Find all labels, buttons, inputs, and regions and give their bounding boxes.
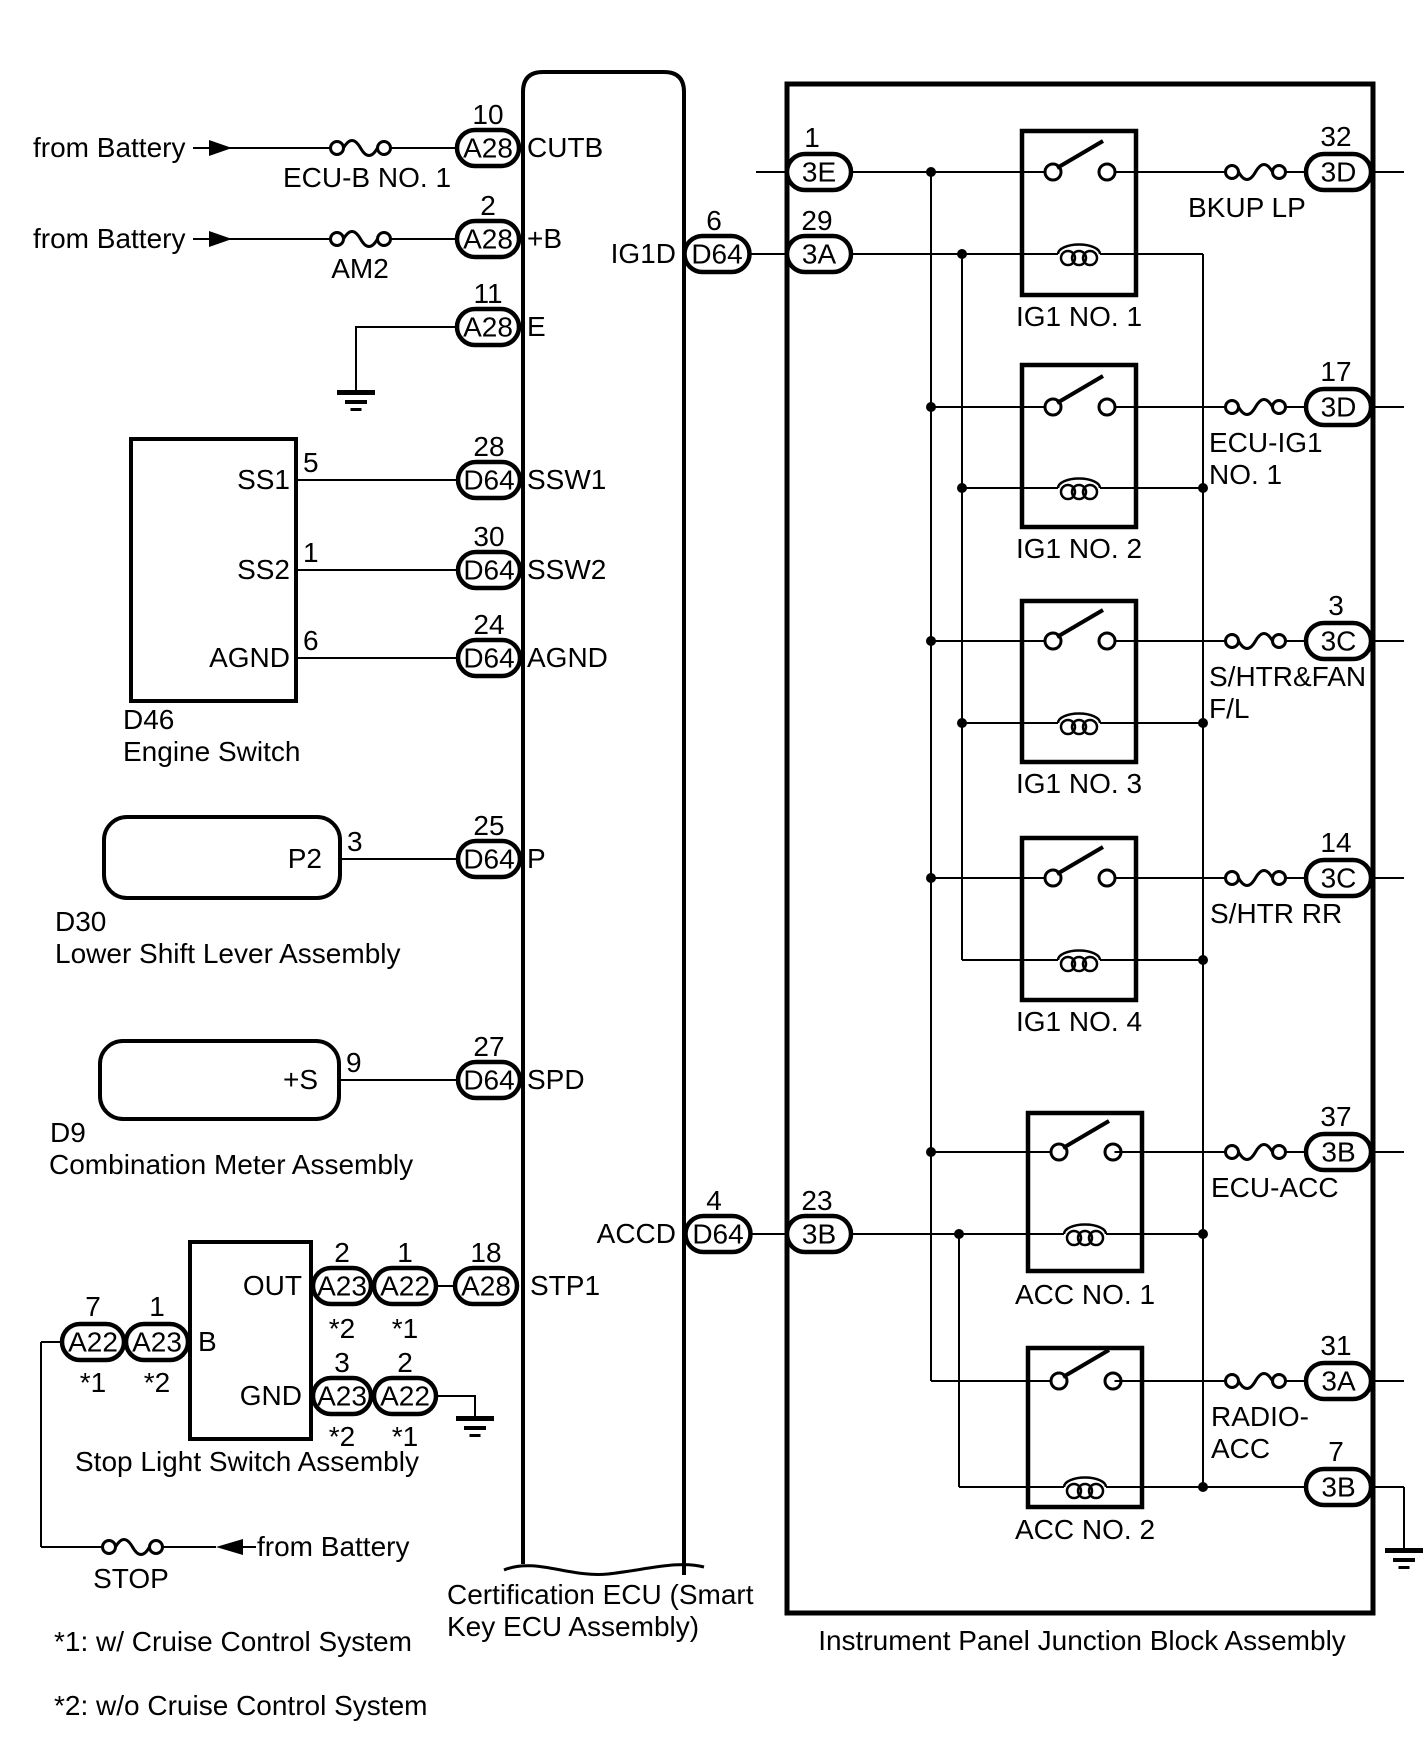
- svg-text:1: 1: [804, 122, 820, 153]
- relay IG1 NO. 2 switch contact: [1020, 406, 1046, 408]
- svg-text:D64: D64: [463, 555, 514, 586]
- wire relay switch to fuse row 32: [1115, 171, 1226, 173]
- wire fuse to connector A28 pin 2: [391, 238, 458, 240]
- wire 3B to ACC NO.1 coil: [851, 1233, 1040, 1235]
- svg-text:D64: D64: [463, 643, 514, 674]
- svg-text:*1: *1: [392, 1313, 418, 1344]
- svg-text:D46: D46: [123, 704, 174, 735]
- wire bus to IG1 NO.2 coil: [962, 487, 1034, 489]
- connector 3B pin 37: [1306, 1134, 1371, 1170]
- wire 3E to IG1 NO.1 switch: [851, 171, 1046, 173]
- engine switch D46 box: [131, 439, 296, 701]
- wire B node down to STOP fuse: [40, 1342, 42, 1547]
- wire fuse to connector A28 pin 10: [391, 147, 458, 149]
- connector 3A pin 29: [787, 236, 851, 272]
- svg-text:ACC NO. 1: ACC NO. 1: [1015, 1279, 1155, 1310]
- svg-text:2: 2: [480, 190, 496, 221]
- svg-text:Stop Light Switch Assembly: Stop Light Switch Assembly: [75, 1446, 419, 1477]
- connector D64 pin 30 (SSW2): [458, 552, 520, 588]
- svg-text:3: 3: [1328, 590, 1344, 621]
- svg-text:7: 7: [85, 1291, 101, 1322]
- svg-text:CUTB: CUTB: [527, 132, 603, 163]
- wire A22 pin 2 to ground: [436, 1395, 475, 1397]
- fuse ECU-ACC: [1226, 1146, 1239, 1159]
- relay IG1 NO. 3: [1022, 601, 1136, 762]
- connector A23 pin 2 (*2) OUT row: [313, 1268, 371, 1304]
- svg-text:3D: 3D: [1321, 157, 1357, 188]
- svg-text:27: 27: [473, 1031, 504, 1062]
- ECU Certification ECU (Smart Key ECU Assembly) body: [523, 72, 684, 1575]
- relay IG1 NO. 1 switch contact: [1020, 171, 1046, 173]
- ground symbol (stop light switch): [456, 1416, 494, 1421]
- connector D64 pin 6 (IG1D): [685, 236, 750, 272]
- connector 3C pin 14: [1306, 860, 1371, 896]
- wire stub right of 3B pin 7: [1371, 1486, 1404, 1488]
- svg-text:A28: A28: [463, 224, 513, 255]
- svg-text:A28: A28: [461, 1271, 511, 1302]
- svg-text:A23: A23: [132, 1327, 182, 1358]
- svg-text:*1: *1: [392, 1421, 418, 1452]
- wire stub right of 3D pin 32: [1371, 171, 1404, 173]
- svg-text:SSW1: SSW1: [527, 464, 606, 495]
- svg-text:Combination Meter Assembly: Combination Meter Assembly: [49, 1149, 413, 1180]
- ground symbol (junction block): [1385, 1548, 1423, 1553]
- svg-text:3B: 3B: [1321, 1137, 1355, 1168]
- svg-text:31: 31: [1320, 1330, 1351, 1361]
- connector A28 pin 10 (CUTB): [457, 130, 519, 166]
- connector 3B pin 7: [1306, 1469, 1371, 1505]
- relay ACC NO. 1 switch contact: [1026, 1151, 1052, 1153]
- relay ACC NO. 1: [1028, 1113, 1142, 1271]
- wire stub right of 3C pin 3: [1371, 640, 1404, 642]
- relay IG1 NO. 2 coil: [1020, 487, 1058, 489]
- relay IG1 NO. 3 switch contact: [1020, 640, 1046, 642]
- wire fuse to connector 3D pin 32: [1286, 171, 1307, 173]
- svg-text:3B: 3B: [802, 1219, 836, 1250]
- svg-text:2: 2: [334, 1237, 350, 1268]
- wire relay switch to fuse row 37: [1115, 1151, 1226, 1153]
- svg-text:D64: D64: [692, 1219, 743, 1250]
- svg-text:OUT: OUT: [243, 1270, 302, 1301]
- wire fuse to connector 3A pin 31: [1286, 1380, 1307, 1382]
- wire D64 pin 6 to 3A pin 29: [749, 253, 788, 255]
- connector A23 pin 1 (*2) B row: [126, 1324, 188, 1360]
- relay ACC NO. 1 coil: [1026, 1233, 1064, 1235]
- fuse ECU-B NO. 1: [331, 142, 344, 155]
- svg-text:30: 30: [473, 521, 504, 552]
- svg-text:2: 2: [397, 1347, 413, 1378]
- relay ACC NO. 2 switch contact: [1026, 1380, 1052, 1382]
- wire D64 pin 4 to 3B pin 23: [750, 1233, 788, 1235]
- wire D46 pin 1 to D64 pin 30: [296, 569, 457, 571]
- wire 3B pin 7 to ground: [1403, 1487, 1405, 1549]
- arrow from Battery row 1: [209, 140, 232, 156]
- svg-text:3B: 3B: [1321, 1472, 1355, 1503]
- svg-text:SPD: SPD: [527, 1064, 585, 1095]
- svg-text:3C: 3C: [1321, 863, 1357, 894]
- svg-text:ECU-ACC: ECU-ACC: [1211, 1172, 1339, 1203]
- wire bus to IG1 NO.3 switch: [931, 640, 1046, 642]
- svg-text:6: 6: [706, 205, 722, 236]
- connector A28 pin 2 (+B): [457, 221, 519, 257]
- svg-text:6: 6: [303, 625, 319, 656]
- connector D64 pin 27 (SPD): [458, 1062, 520, 1098]
- combination meter assembly D9 box: [100, 1041, 339, 1119]
- svg-text:D30: D30: [55, 906, 106, 937]
- svg-text:SSW2: SSW2: [527, 554, 606, 585]
- svg-text:ACCD: ACCD: [597, 1218, 676, 1249]
- fuse S/HTR RR: [1226, 872, 1239, 885]
- wire stub right of 3B pin 37: [1371, 1151, 1404, 1153]
- svg-text:32: 32: [1320, 121, 1351, 152]
- junction: [954, 1229, 964, 1239]
- svg-text:1: 1: [303, 537, 319, 568]
- relay IG1 NO. 2: [1022, 365, 1136, 527]
- relay ACC NO. 2 coil: [1026, 1486, 1064, 1488]
- wire bus to ACC NO.1 switch: [931, 1151, 1052, 1153]
- svg-text:Key ECU Assembly): Key ECU Assembly): [447, 1611, 699, 1642]
- ground symbol (E): [337, 390, 375, 395]
- svg-text:18: 18: [470, 1237, 501, 1268]
- wire stub to A22 pin 7: [41, 1341, 62, 1343]
- svg-text:STP1: STP1: [530, 1270, 600, 1301]
- svg-text:P: P: [527, 843, 546, 874]
- connector A22 pin 1 (*1) OUT row: [374, 1268, 436, 1304]
- wire return bus to 3B pin 7: [1203, 1486, 1306, 1488]
- svg-text:S/HTR&FAN: S/HTR&FAN: [1209, 661, 1366, 692]
- svg-text:A28: A28: [463, 133, 513, 164]
- wire bus from 3B to ACC relay coils: [958, 1234, 960, 1487]
- svg-text:AM2: AM2: [331, 253, 389, 284]
- wire fuse to connector 3B pin 37: [1286, 1151, 1307, 1153]
- relay ACC NO. 2: [1028, 1348, 1142, 1507]
- svg-text:A22: A22: [380, 1271, 430, 1302]
- svg-text:*1: *1: [80, 1367, 106, 1398]
- wire bus to IG1 NO.4 coil: [962, 959, 1034, 961]
- svg-text:from Battery: from Battery: [33, 132, 185, 163]
- junction: [926, 636, 936, 646]
- connector 3E pin 1: [787, 154, 851, 190]
- junction: [1198, 1482, 1208, 1492]
- connector D64 pin 24 (AGND): [458, 640, 520, 676]
- svg-text:1: 1: [397, 1237, 413, 1268]
- junction: [926, 402, 936, 412]
- svg-text:STOP: STOP: [93, 1563, 169, 1594]
- wire D30 pin 3 to D64 pin 25: [340, 858, 457, 860]
- wire ACC NO.1 coil to return bus: [1142, 1233, 1203, 1235]
- wire D46 pin 5 to D64 pin 28: [296, 479, 457, 481]
- wire fuse to connector 3C pin 3: [1286, 640, 1307, 642]
- svg-text:4: 4: [706, 1185, 722, 1216]
- svg-text:NO. 1: NO. 1: [1209, 459, 1282, 490]
- stop light switch assembly box: [190, 1242, 311, 1439]
- wire bus from 3E to relay switches: [930, 172, 932, 1381]
- svg-text:25: 25: [473, 810, 504, 841]
- wire bus to ACC NO.2 coil: [959, 1486, 1040, 1488]
- wire relay switch to fuse row 14: [1115, 877, 1226, 879]
- svg-text:11: 11: [473, 278, 502, 309]
- svg-text:D64: D64: [463, 1065, 514, 1096]
- svg-text:3D: 3D: [1321, 392, 1357, 423]
- svg-text:F/L: F/L: [1209, 693, 1249, 724]
- svg-text:BKUP LP: BKUP LP: [1188, 192, 1306, 223]
- wire bus to IG1 NO.4 switch: [931, 877, 1046, 879]
- svg-text:Instrument Panel Junction Bloc: Instrument Panel Junction Block Assembly: [818, 1625, 1346, 1656]
- svg-text:RADIO-: RADIO-: [1211, 1401, 1309, 1432]
- junction: [926, 167, 936, 177]
- wire bus to ACC NO.2 switch: [931, 1380, 1052, 1382]
- svg-text:3A: 3A: [802, 239, 837, 270]
- svg-text:*2: *2: [329, 1313, 355, 1344]
- ECU torn-bottom wavy line: [504, 1565, 704, 1575]
- wire D9 pin 9 to D64 pin 27: [339, 1079, 457, 1081]
- junction: [957, 718, 967, 728]
- junction block Instrument Panel Junction Block Assembly: [787, 84, 1373, 1613]
- wire stub right of 3C pin 14: [1371, 877, 1404, 879]
- connector 3D pin 17: [1306, 389, 1371, 425]
- fuse AM2: [331, 233, 344, 246]
- relay IG1 NO. 1 coil: [1020, 253, 1058, 255]
- wire relay switch to fuse row 31: [1115, 1380, 1226, 1382]
- svg-text:29: 29: [801, 205, 832, 236]
- svg-text:Lower Shift Lever Assembly: Lower Shift Lever Assembly: [55, 938, 401, 969]
- junction: [957, 483, 967, 493]
- svg-text:A22: A22: [68, 1327, 118, 1358]
- fuse S/HTR&amp;FAN: [1226, 635, 1239, 648]
- junction: [1198, 483, 1208, 493]
- svg-text:1: 1: [149, 1291, 165, 1322]
- wire ground to connector A28 pin 11: [356, 326, 457, 328]
- wire stub right of 3D pin 17: [1371, 406, 1404, 408]
- junction: [926, 873, 936, 883]
- svg-text:7: 7: [1328, 1436, 1344, 1467]
- connector 3D pin 32: [1306, 154, 1371, 190]
- svg-text:Certification ECU (Smart: Certification ECU (Smart: [447, 1579, 754, 1610]
- svg-text:24: 24: [473, 609, 504, 640]
- svg-text:+S: +S: [283, 1064, 318, 1095]
- svg-text:28: 28: [473, 431, 504, 462]
- connector A22 pin 2 (*1) GND row: [374, 1378, 436, 1414]
- svg-text:3: 3: [347, 826, 363, 857]
- fuse BKUP LP: [1226, 166, 1239, 179]
- svg-text:SS2: SS2: [237, 554, 290, 585]
- wire bus to IG1 NO.2 switch: [931, 406, 1046, 408]
- svg-text:ACC: ACC: [1211, 1433, 1270, 1464]
- wire bus from 3A to IG1 relay coils: [961, 254, 963, 960]
- svg-text:D64: D64: [463, 465, 514, 496]
- connector A28 pin 18 (STP1): [455, 1268, 517, 1304]
- wire relay switch to fuse row 3: [1115, 640, 1226, 642]
- svg-text:ECU-IG1: ECU-IG1: [1209, 427, 1323, 458]
- fuse ECU-IG1: [1226, 401, 1239, 414]
- connector A23 pin 3 (*2) GND row: [313, 1378, 371, 1414]
- svg-text:A23: A23: [317, 1271, 367, 1302]
- svg-text:IG1 NO. 4: IG1 NO. 4: [1016, 1006, 1142, 1037]
- lower shift lever assembly D30 box: [104, 817, 340, 898]
- fuse RADIO-: [1226, 1375, 1239, 1388]
- svg-text:GND: GND: [240, 1380, 302, 1411]
- wire D46 pin 6 to D64 pin 24: [296, 657, 457, 659]
- relay IG1 NO. 1: [1022, 131, 1136, 295]
- junction: [1198, 1229, 1208, 1239]
- wire stub into 3E pin 1: [756, 171, 788, 173]
- connector 3B pin 23: [787, 1216, 851, 1252]
- junction: [957, 249, 967, 259]
- svg-text:D64: D64: [691, 239, 742, 270]
- arrow from Battery (STOP): [216, 1539, 243, 1555]
- svg-text:+B: +B: [527, 223, 562, 254]
- relay IG1 NO. 4 coil: [1020, 959, 1058, 961]
- svg-text:AGND: AGND: [209, 642, 290, 673]
- svg-text:IG1 NO. 3: IG1 NO. 3: [1016, 768, 1142, 799]
- svg-text:3E: 3E: [802, 157, 836, 188]
- junction: [1198, 955, 1208, 965]
- svg-text:14: 14: [1320, 827, 1351, 858]
- wire fuse to connector 3D pin 17: [1286, 406, 1307, 408]
- svg-text:3: 3: [334, 1347, 350, 1378]
- svg-text:23: 23: [801, 1185, 832, 1216]
- svg-text:17: 17: [1320, 356, 1351, 387]
- svg-text:D9: D9: [50, 1117, 86, 1148]
- svg-text:IG1 NO. 1: IG1 NO. 1: [1016, 301, 1142, 332]
- wire fuse STOP to from Battery: [163, 1546, 217, 1548]
- svg-text:A22: A22: [380, 1381, 430, 1412]
- svg-text:from Battery: from Battery: [33, 223, 185, 254]
- svg-text:S/HTR RR: S/HTR RR: [1210, 898, 1342, 929]
- wire IG1 NO.1 coil to return bus: [1136, 253, 1203, 255]
- wire bus relay coil returns to 3B pin 7: [1202, 254, 1204, 1487]
- relay IG1 NO. 4 switch contact: [1020, 877, 1046, 879]
- wire 3A to IG1 NO.1 coil: [851, 253, 1034, 255]
- wire IG1 NO.2 coil to return bus: [1136, 487, 1203, 489]
- svg-text:SS1: SS1: [237, 464, 290, 495]
- svg-text:A23: A23: [317, 1381, 367, 1412]
- svg-text:IG1 NO. 2: IG1 NO. 2: [1016, 533, 1142, 564]
- wire stub right of 3A pin 31: [1371, 1380, 1404, 1382]
- fuse STOP: [103, 1541, 116, 1554]
- wire IG1 NO.3 coil to return bus: [1136, 722, 1203, 724]
- svg-text:ECU-B NO. 1: ECU-B NO. 1: [283, 162, 451, 193]
- svg-text:ACC NO. 2: ACC NO. 2: [1015, 1514, 1155, 1545]
- svg-text:D64: D64: [463, 844, 514, 875]
- wire A22 to A28 pin 18: [436, 1285, 455, 1287]
- svg-text:AGND: AGND: [527, 642, 608, 673]
- svg-text:*1: w/ Cruise Control System: *1: w/ Cruise Control System: [54, 1626, 412, 1657]
- connector A28 pin 11 (E): [457, 309, 519, 345]
- svg-text:Engine Switch: Engine Switch: [123, 736, 300, 767]
- arrow from Battery row 2: [209, 231, 232, 247]
- relay IG1 NO. 4: [1022, 838, 1136, 1000]
- wire relay switch to fuse row 17: [1115, 406, 1226, 408]
- svg-text:3A: 3A: [1321, 1366, 1356, 1397]
- connector D64 pin 25 (P): [458, 841, 520, 877]
- svg-text:9: 9: [346, 1047, 362, 1078]
- svg-text:A28: A28: [463, 312, 513, 343]
- connector D64 pin 28 (SSW1): [458, 462, 520, 498]
- svg-text:*2: *2: [144, 1367, 170, 1398]
- svg-text:B: B: [198, 1326, 217, 1357]
- svg-text:IG1D: IG1D: [611, 238, 676, 269]
- wire ACC NO.2 coil to return bus: [1142, 1486, 1203, 1488]
- svg-text:from Battery: from Battery: [257, 1531, 409, 1562]
- svg-text:3C: 3C: [1321, 626, 1357, 657]
- connector D64 pin 4 (ACCD): [686, 1216, 751, 1252]
- svg-text:P2: P2: [288, 843, 322, 874]
- connector 3C pin 3: [1306, 623, 1371, 659]
- wire fuse to connector 3C pin 14: [1286, 877, 1307, 879]
- wire bus to IG1 NO.3 coil: [962, 722, 1034, 724]
- junction: [1198, 718, 1208, 728]
- svg-text:*2: w/o Cruise Control System: *2: w/o Cruise Control System: [54, 1690, 427, 1721]
- connector 3A pin 31: [1306, 1363, 1371, 1399]
- svg-text:E: E: [527, 311, 546, 342]
- svg-text:*2: *2: [329, 1421, 355, 1452]
- svg-text:37: 37: [1320, 1101, 1351, 1132]
- svg-text:10: 10: [472, 99, 503, 130]
- relay IG1 NO. 3 coil: [1020, 722, 1058, 724]
- junction: [926, 1147, 936, 1157]
- svg-text:5: 5: [303, 447, 319, 478]
- connector A22 pin 7 (*1) B row: [62, 1324, 124, 1360]
- wire IG1 NO.4 coil to return bus: [1136, 959, 1203, 961]
